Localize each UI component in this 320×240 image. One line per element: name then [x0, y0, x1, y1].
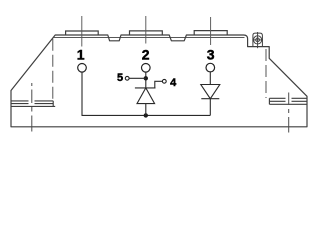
wire: pin 5 to cathode node	[129, 77, 146, 79]
diode V2 triangle	[201, 85, 220, 99]
svg-text:3: 3	[207, 47, 215, 63]
terminal 3 center line	[210, 17, 212, 45]
terminal 2 center line	[145, 16, 147, 44]
screw head inner circle	[256, 38, 260, 42]
svg-text:1: 1	[77, 47, 85, 63]
wire: thyristor anode to bus	[145, 104, 147, 116]
terminal pad 1	[66, 31, 99, 35]
screw cross horizontal	[252, 39, 263, 41]
wire: bottom bus	[82, 114, 211, 116]
right chamfer hidden edge (dashed)	[265, 49, 267, 98]
svg-text:5: 5	[117, 72, 123, 84]
wire: terminal 3 down to diode	[209, 72, 211, 85]
junction dot on bus	[144, 113, 148, 117]
module body outline	[11, 35, 307, 127]
junction dot cathode node	[144, 76, 148, 80]
svg-text:4: 4	[170, 77, 177, 89]
wire: diode to bus	[209, 99, 211, 116]
screw clamp block	[253, 33, 263, 47]
pin 4 circle	[162, 79, 166, 83]
terminal pad 2	[130, 31, 163, 35]
left slot center line (dash-dot)	[31, 83, 33, 132]
terminal pad 3	[194, 31, 227, 35]
right mounting slot	[269, 98, 307, 104]
left chamfer hidden edge (dashed)	[52, 39, 54, 101]
wire: terminal 2 down to thyristor	[145, 72, 147, 88]
screw cross vertical	[257, 32, 259, 48]
terminal 3 circle	[206, 63, 215, 72]
thyristor V1 cathode bar	[135, 87, 156, 89]
wire: terminal 1 down to bus	[81, 72, 83, 115]
terminal 2 circle	[142, 64, 151, 73]
right slot center line (dash-dot)	[288, 93, 290, 133]
terminal 1 circle	[78, 64, 87, 73]
terminal 1 center line	[81, 16, 83, 47]
left mounting slot	[11, 101, 55, 107]
svg-text:2: 2	[142, 47, 150, 63]
top edge lower line	[53, 36, 244, 38]
thyristor V1 triangle	[137, 88, 155, 104]
diode V2 cathode bar	[201, 98, 219, 100]
gate lead to pin 4	[155, 81, 163, 88]
pin 5 circle	[125, 76, 129, 80]
screw head outer circle	[254, 36, 262, 44]
